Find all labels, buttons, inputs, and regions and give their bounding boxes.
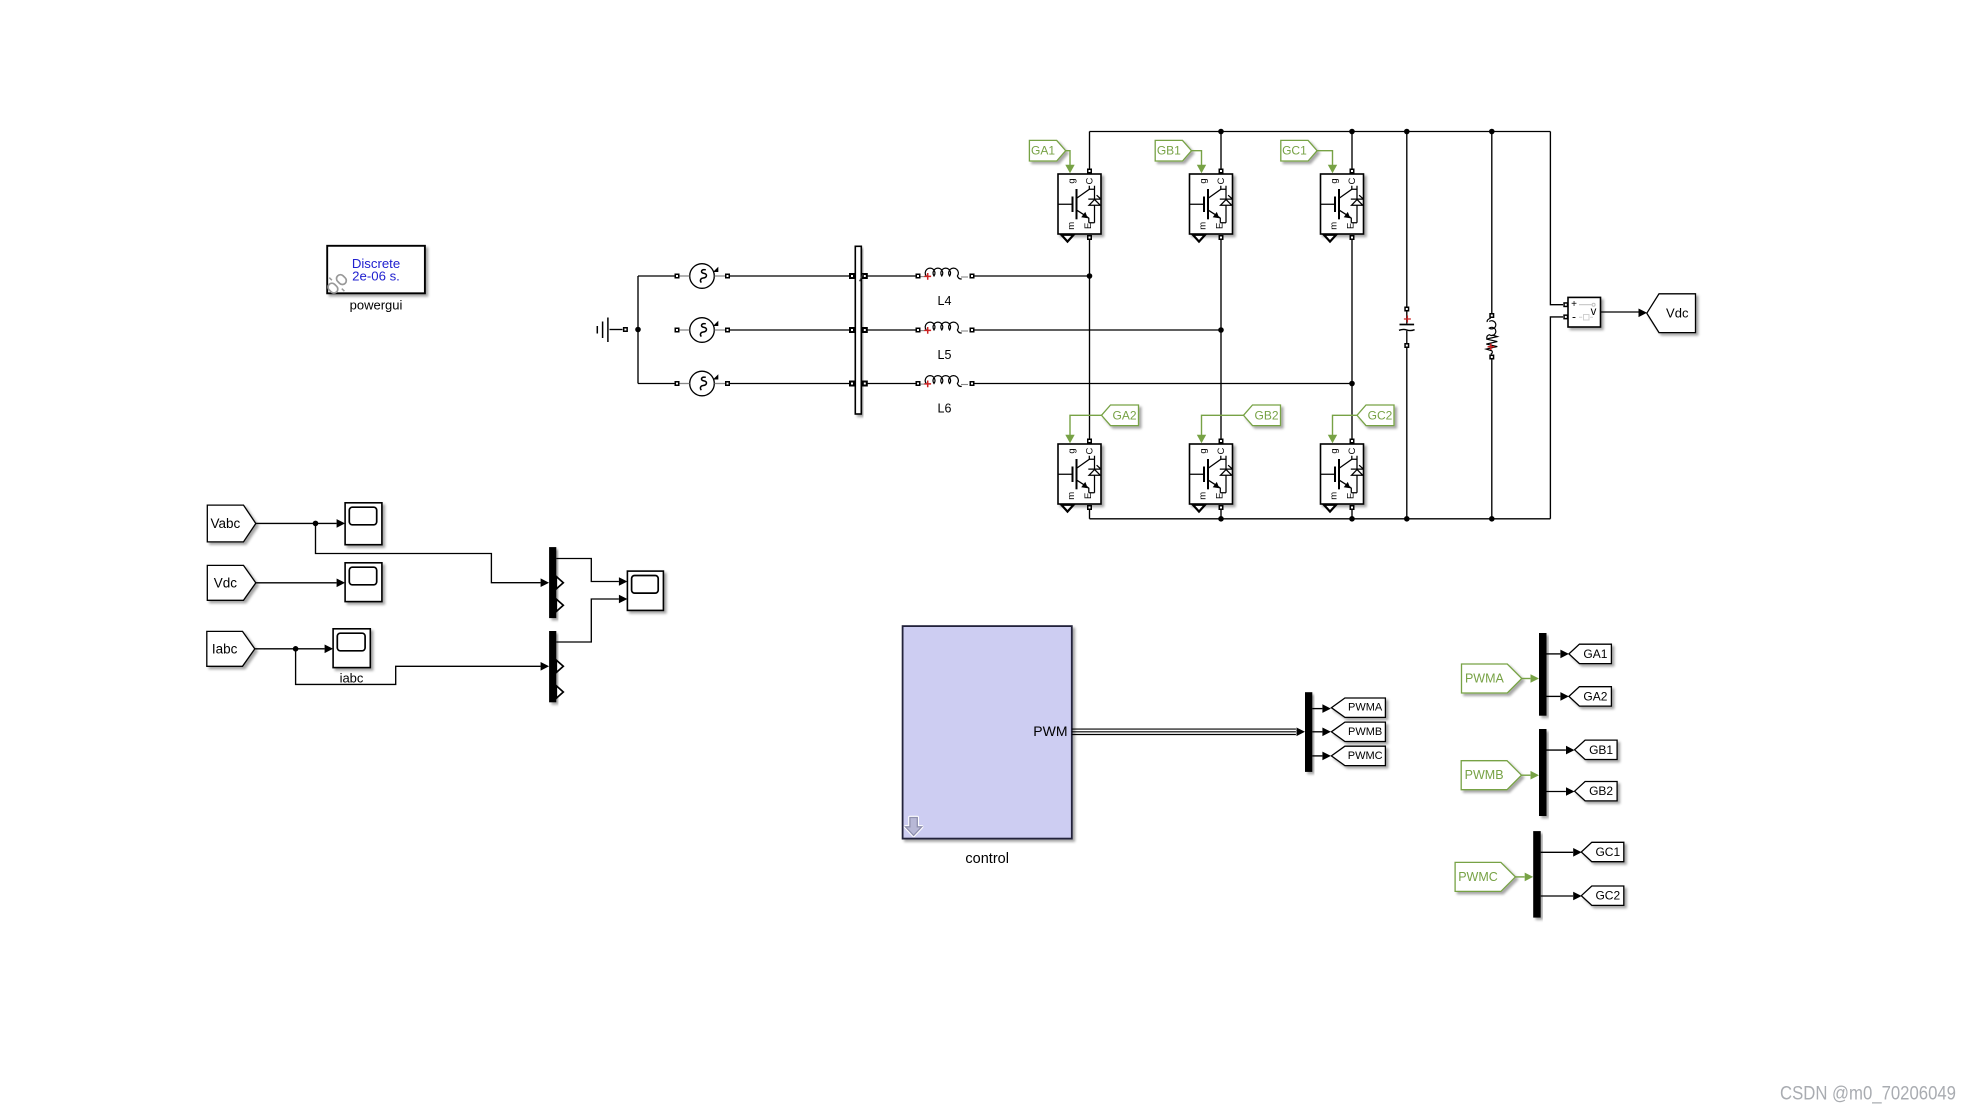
wire <box>556 595 627 642</box>
demux PWM <box>1305 692 1312 772</box>
svg-text:PWMB: PWMB <box>1348 726 1382 738</box>
wire <box>974 381 1355 387</box>
wire <box>1550 317 1563 519</box>
wire <box>1089 132 1091 172</box>
wire <box>974 273 1092 279</box>
goto tag Vdc <box>1639 294 1696 333</box>
svg-text:PWMC: PWMC <box>1348 750 1383 762</box>
svg-text:v: v <box>1591 306 1597 318</box>
from tag GA1 <box>1029 140 1074 173</box>
wire <box>296 649 549 685</box>
capacitor C1 <box>1399 307 1415 349</box>
svg-text:PWMA: PWMA <box>1465 672 1505 686</box>
scope Vabc <box>345 503 382 545</box>
wire <box>1089 507 1091 519</box>
bus wire PWM (3 lines) <box>1072 728 1305 737</box>
series RL branch <box>1486 313 1497 360</box>
svg-text:GA1: GA1 <box>1583 647 1607 661</box>
from tag GA2 <box>1065 405 1138 443</box>
from tag Iabc <box>207 631 255 666</box>
AC source Va <box>675 264 731 289</box>
wire <box>730 383 851 385</box>
inductor L4 <box>916 268 975 308</box>
wire <box>1491 132 1493 314</box>
from tag PWMA <box>1462 664 1540 693</box>
wire <box>1312 728 1331 737</box>
wire <box>1220 237 1222 441</box>
svg-text:Vdc: Vdc <box>1666 306 1689 321</box>
svg-text:GA2: GA2 <box>1583 689 1607 703</box>
svg-text:PWM: PWM <box>1033 723 1067 739</box>
svg-text:GA1: GA1 <box>1031 144 1055 158</box>
wire <box>730 329 851 331</box>
svg-text:CSDN @m0_70206049: CSDN @m0_70206049 <box>1780 1083 1956 1105</box>
svg-text:Vdc: Vdc <box>214 575 238 590</box>
wire <box>638 383 675 385</box>
wire <box>1220 132 1222 172</box>
svg-text:2e-06 s.: 2e-06 s. <box>352 269 400 284</box>
wire <box>1550 132 1563 305</box>
svg-text:L5: L5 <box>938 348 952 362</box>
svg-text:GC2: GC2 <box>1368 408 1393 422</box>
wire <box>256 519 345 528</box>
scope main <box>627 571 663 610</box>
demux PWMC <box>1533 831 1541 918</box>
IGBT GC1 upper leg C <box>1321 169 1364 242</box>
wire <box>316 523 550 587</box>
svg-text:control: control <box>965 851 1009 867</box>
wire <box>1312 704 1331 713</box>
ground <box>597 318 628 343</box>
from tag Vabc <box>207 505 256 542</box>
node neutral <box>635 276 641 384</box>
wire <box>256 579 345 588</box>
svg-text:L6: L6 <box>938 402 952 416</box>
svg-text:-: - <box>1572 310 1576 324</box>
goto tag GA1 <box>1569 644 1612 663</box>
IGBT GC2 lower leg C <box>1321 439 1364 512</box>
from tag GC2 <box>1328 405 1394 443</box>
wire <box>1547 787 1575 796</box>
voltage measurement Vm <box>1563 297 1600 327</box>
demux PWMA <box>1539 633 1547 716</box>
svg-text:+: + <box>1571 299 1577 310</box>
wire <box>867 329 916 331</box>
goto tag GC1 <box>1581 842 1624 861</box>
svg-text:iabc: iabc <box>340 671 364 686</box>
IGBT GB2 lower leg B <box>1190 439 1233 512</box>
inductor L6 <box>916 376 975 416</box>
IGBT GA2 lower leg A <box>1058 439 1101 512</box>
watermark <box>1780 1083 1956 1105</box>
svg-text:GB1: GB1 <box>1157 144 1181 158</box>
goto tag PWMC <box>1331 746 1385 765</box>
wire <box>1541 892 1582 901</box>
wire <box>1351 507 1353 519</box>
scope Vdc <box>345 563 382 602</box>
svg-text:PWMA: PWMA <box>1348 702 1383 714</box>
wire <box>1089 237 1091 441</box>
wire <box>1220 507 1222 519</box>
svg-text:GB2: GB2 <box>1254 408 1278 422</box>
wire <box>1312 752 1331 761</box>
wire <box>867 383 916 385</box>
bus creator 1 <box>549 547 563 618</box>
wire <box>1491 360 1493 519</box>
scope iabc <box>333 629 370 686</box>
from tag GB1 <box>1155 140 1206 173</box>
svg-text:powergui: powergui <box>350 297 403 312</box>
wire <box>255 645 333 654</box>
demux PWMB <box>1539 729 1547 816</box>
wire <box>1601 311 1639 313</box>
wire <box>1351 237 1353 441</box>
svg-text:GC1: GC1 <box>1282 144 1307 158</box>
wire <box>974 327 1224 333</box>
goto tag GA2 <box>1569 687 1612 706</box>
goto tag GB2 <box>1575 782 1618 801</box>
svg-text:PWMB: PWMB <box>1465 768 1504 782</box>
wire <box>1547 650 1569 659</box>
from tag Vdc <box>207 565 256 600</box>
IGBT GA1 upper leg A <box>1058 169 1101 242</box>
goto tag GC2 <box>1581 886 1624 905</box>
from tag PWMB <box>1461 761 1539 790</box>
svg-text:GC2: GC2 <box>1595 889 1620 903</box>
goto tag PWMA <box>1331 698 1385 717</box>
from tag GC1 <box>1281 140 1337 173</box>
wire <box>730 275 851 277</box>
goto tag PWMB <box>1331 722 1385 741</box>
powergui label <box>350 297 403 312</box>
wire <box>1406 132 1408 307</box>
wire <box>867 275 916 277</box>
wire <box>638 275 675 277</box>
wire <box>556 559 627 586</box>
wire <box>1351 132 1353 172</box>
svg-text:GB2: GB2 <box>1589 784 1613 798</box>
subsystem control <box>903 626 1072 867</box>
svg-text:Iabc: Iabc <box>212 641 238 656</box>
wire <box>1541 848 1582 857</box>
svg-text:PWMC: PWMC <box>1458 870 1498 884</box>
wire <box>1406 348 1408 519</box>
goto tag GB1 <box>1575 740 1618 759</box>
DC positive rail <box>1090 129 1551 135</box>
inductor L5 <box>916 322 975 362</box>
DC negative rail <box>1090 516 1551 522</box>
svg-text:GA2: GA2 <box>1112 408 1136 422</box>
from tag GB2 <box>1197 405 1281 443</box>
svg-text:GB1: GB1 <box>1589 743 1613 757</box>
wire <box>1547 692 1569 701</box>
IGBT GB1 upper leg B <box>1190 169 1233 242</box>
powergui block <box>326 246 425 295</box>
bus creator 2 <box>549 631 563 702</box>
svg-text:GC1: GC1 <box>1595 845 1620 859</box>
AC source Vb <box>675 318 731 343</box>
svg-text:Vabc: Vabc <box>211 516 241 531</box>
svg-text:L4: L4 <box>938 294 952 308</box>
three-phase bus bar B1 <box>849 246 868 414</box>
from tag PWMC <box>1455 862 1533 891</box>
AC source Vc <box>675 371 731 396</box>
wire <box>1547 746 1575 755</box>
